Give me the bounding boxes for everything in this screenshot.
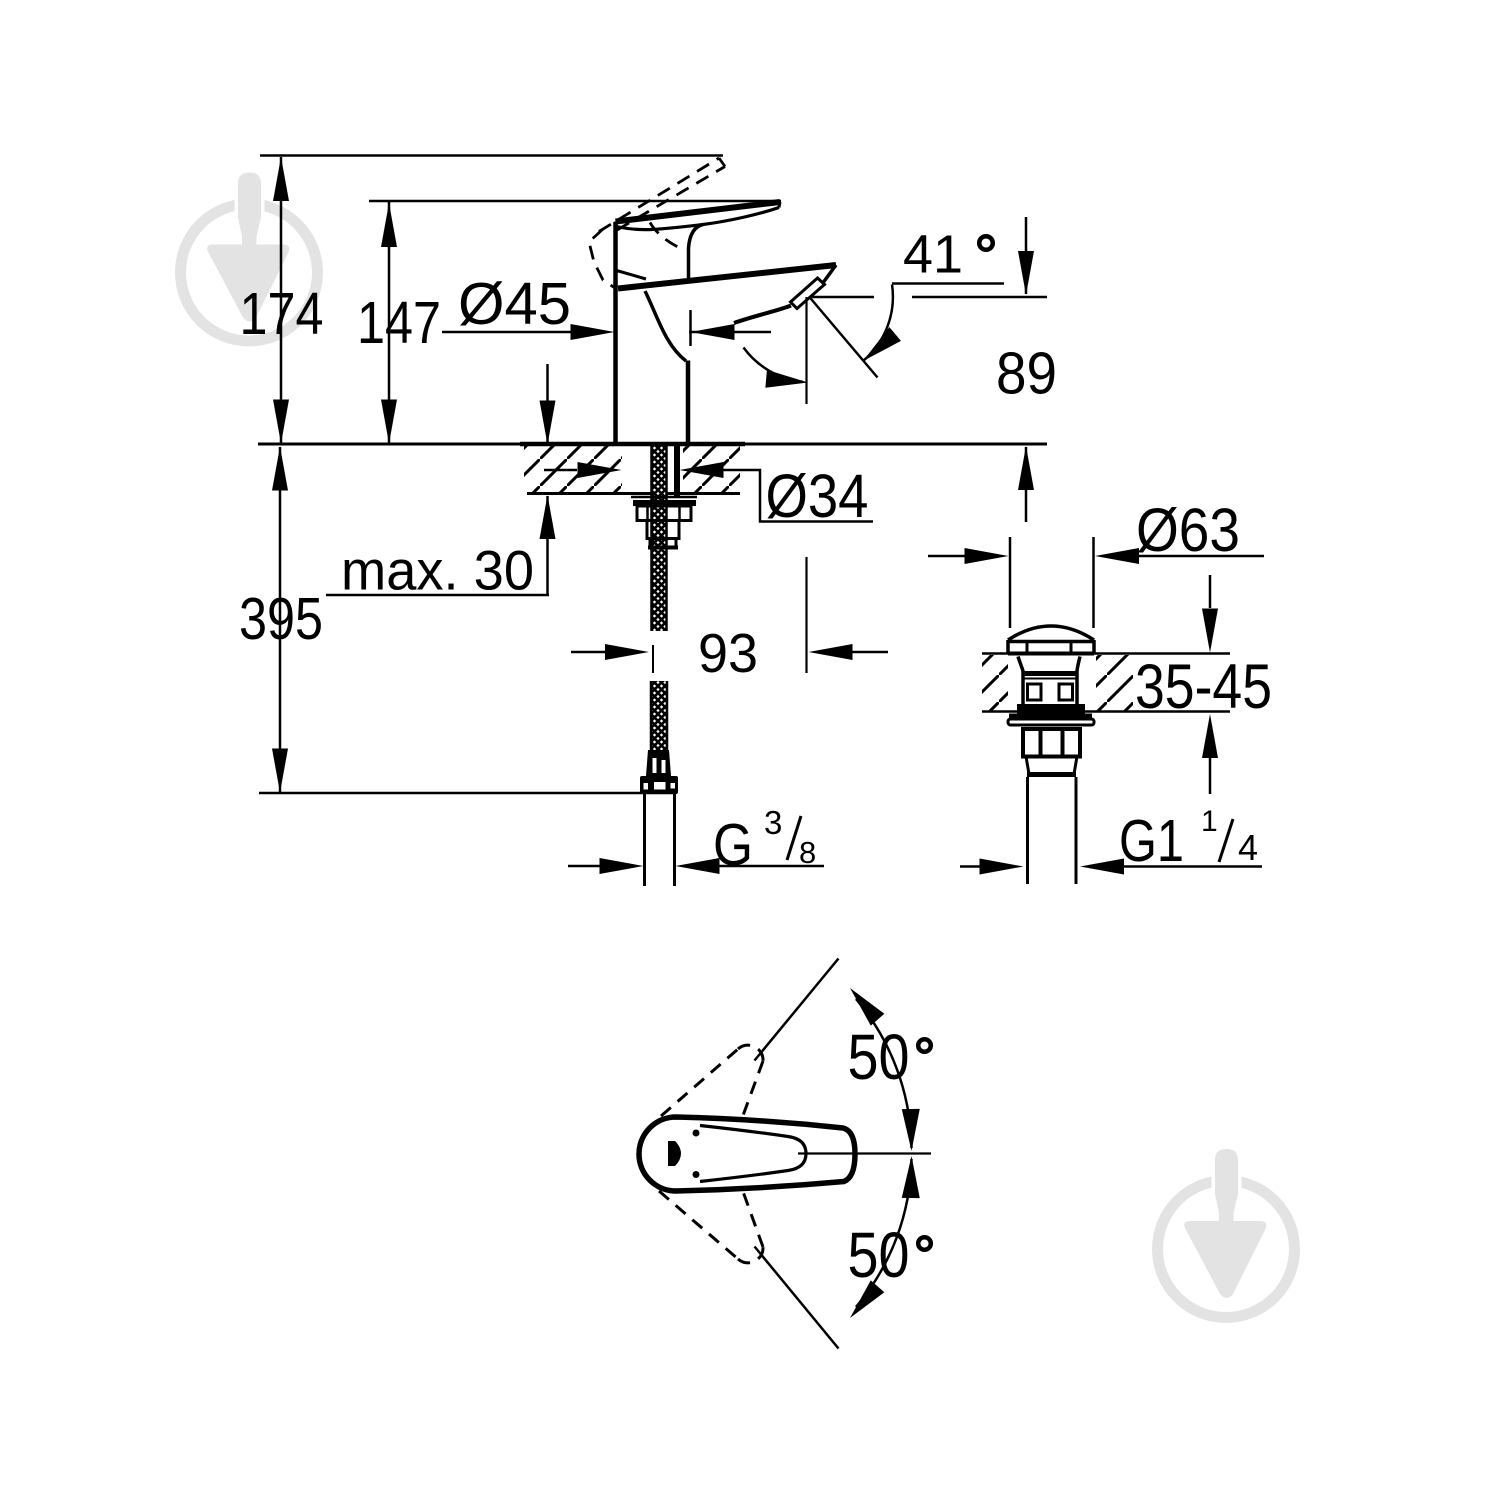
svg-text:1: 1 (1201, 805, 1218, 838)
svg-text:41: 41 (903, 225, 963, 285)
svg-text:Ø45: Ø45 (458, 271, 571, 337)
svg-text:max. 30: max. 30 (341, 539, 534, 602)
svg-text:Ø63: Ø63 (1136, 496, 1240, 564)
svg-text:8: 8 (799, 835, 816, 870)
svg-text:35-45: 35-45 (1135, 652, 1272, 722)
svg-text:3: 3 (764, 804, 782, 841)
svg-text:50: 50 (848, 1021, 910, 1093)
svg-text:50: 50 (848, 1219, 910, 1291)
svg-text:174: 174 (240, 281, 324, 347)
svg-text:Ø34: Ø34 (766, 462, 869, 530)
svg-text:G1: G1 (1119, 808, 1184, 874)
svg-text:4: 4 (1238, 827, 1258, 868)
svg-text:93: 93 (698, 622, 758, 684)
svg-text:147: 147 (357, 290, 441, 356)
svg-text:395: 395 (239, 586, 323, 652)
svg-text:G: G (713, 812, 753, 878)
svg-text:89: 89 (996, 341, 1057, 407)
